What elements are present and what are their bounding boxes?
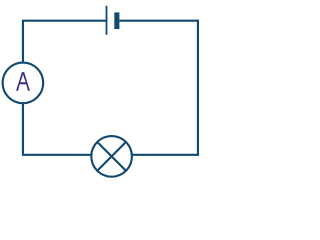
ammeter circle [3, 63, 44, 104]
lamp cross [97, 142, 126, 171]
wire right loop: bottom-right, right side, top-right [112, 21, 198, 155]
ammeter label A [16, 72, 30, 91]
battery thick short plate [114, 12, 119, 29]
wire left loop: top-left, left side, bottom-left [23, 21, 112, 155]
battery thin long plate [106, 6, 108, 35]
lamp circle [91, 136, 132, 177]
